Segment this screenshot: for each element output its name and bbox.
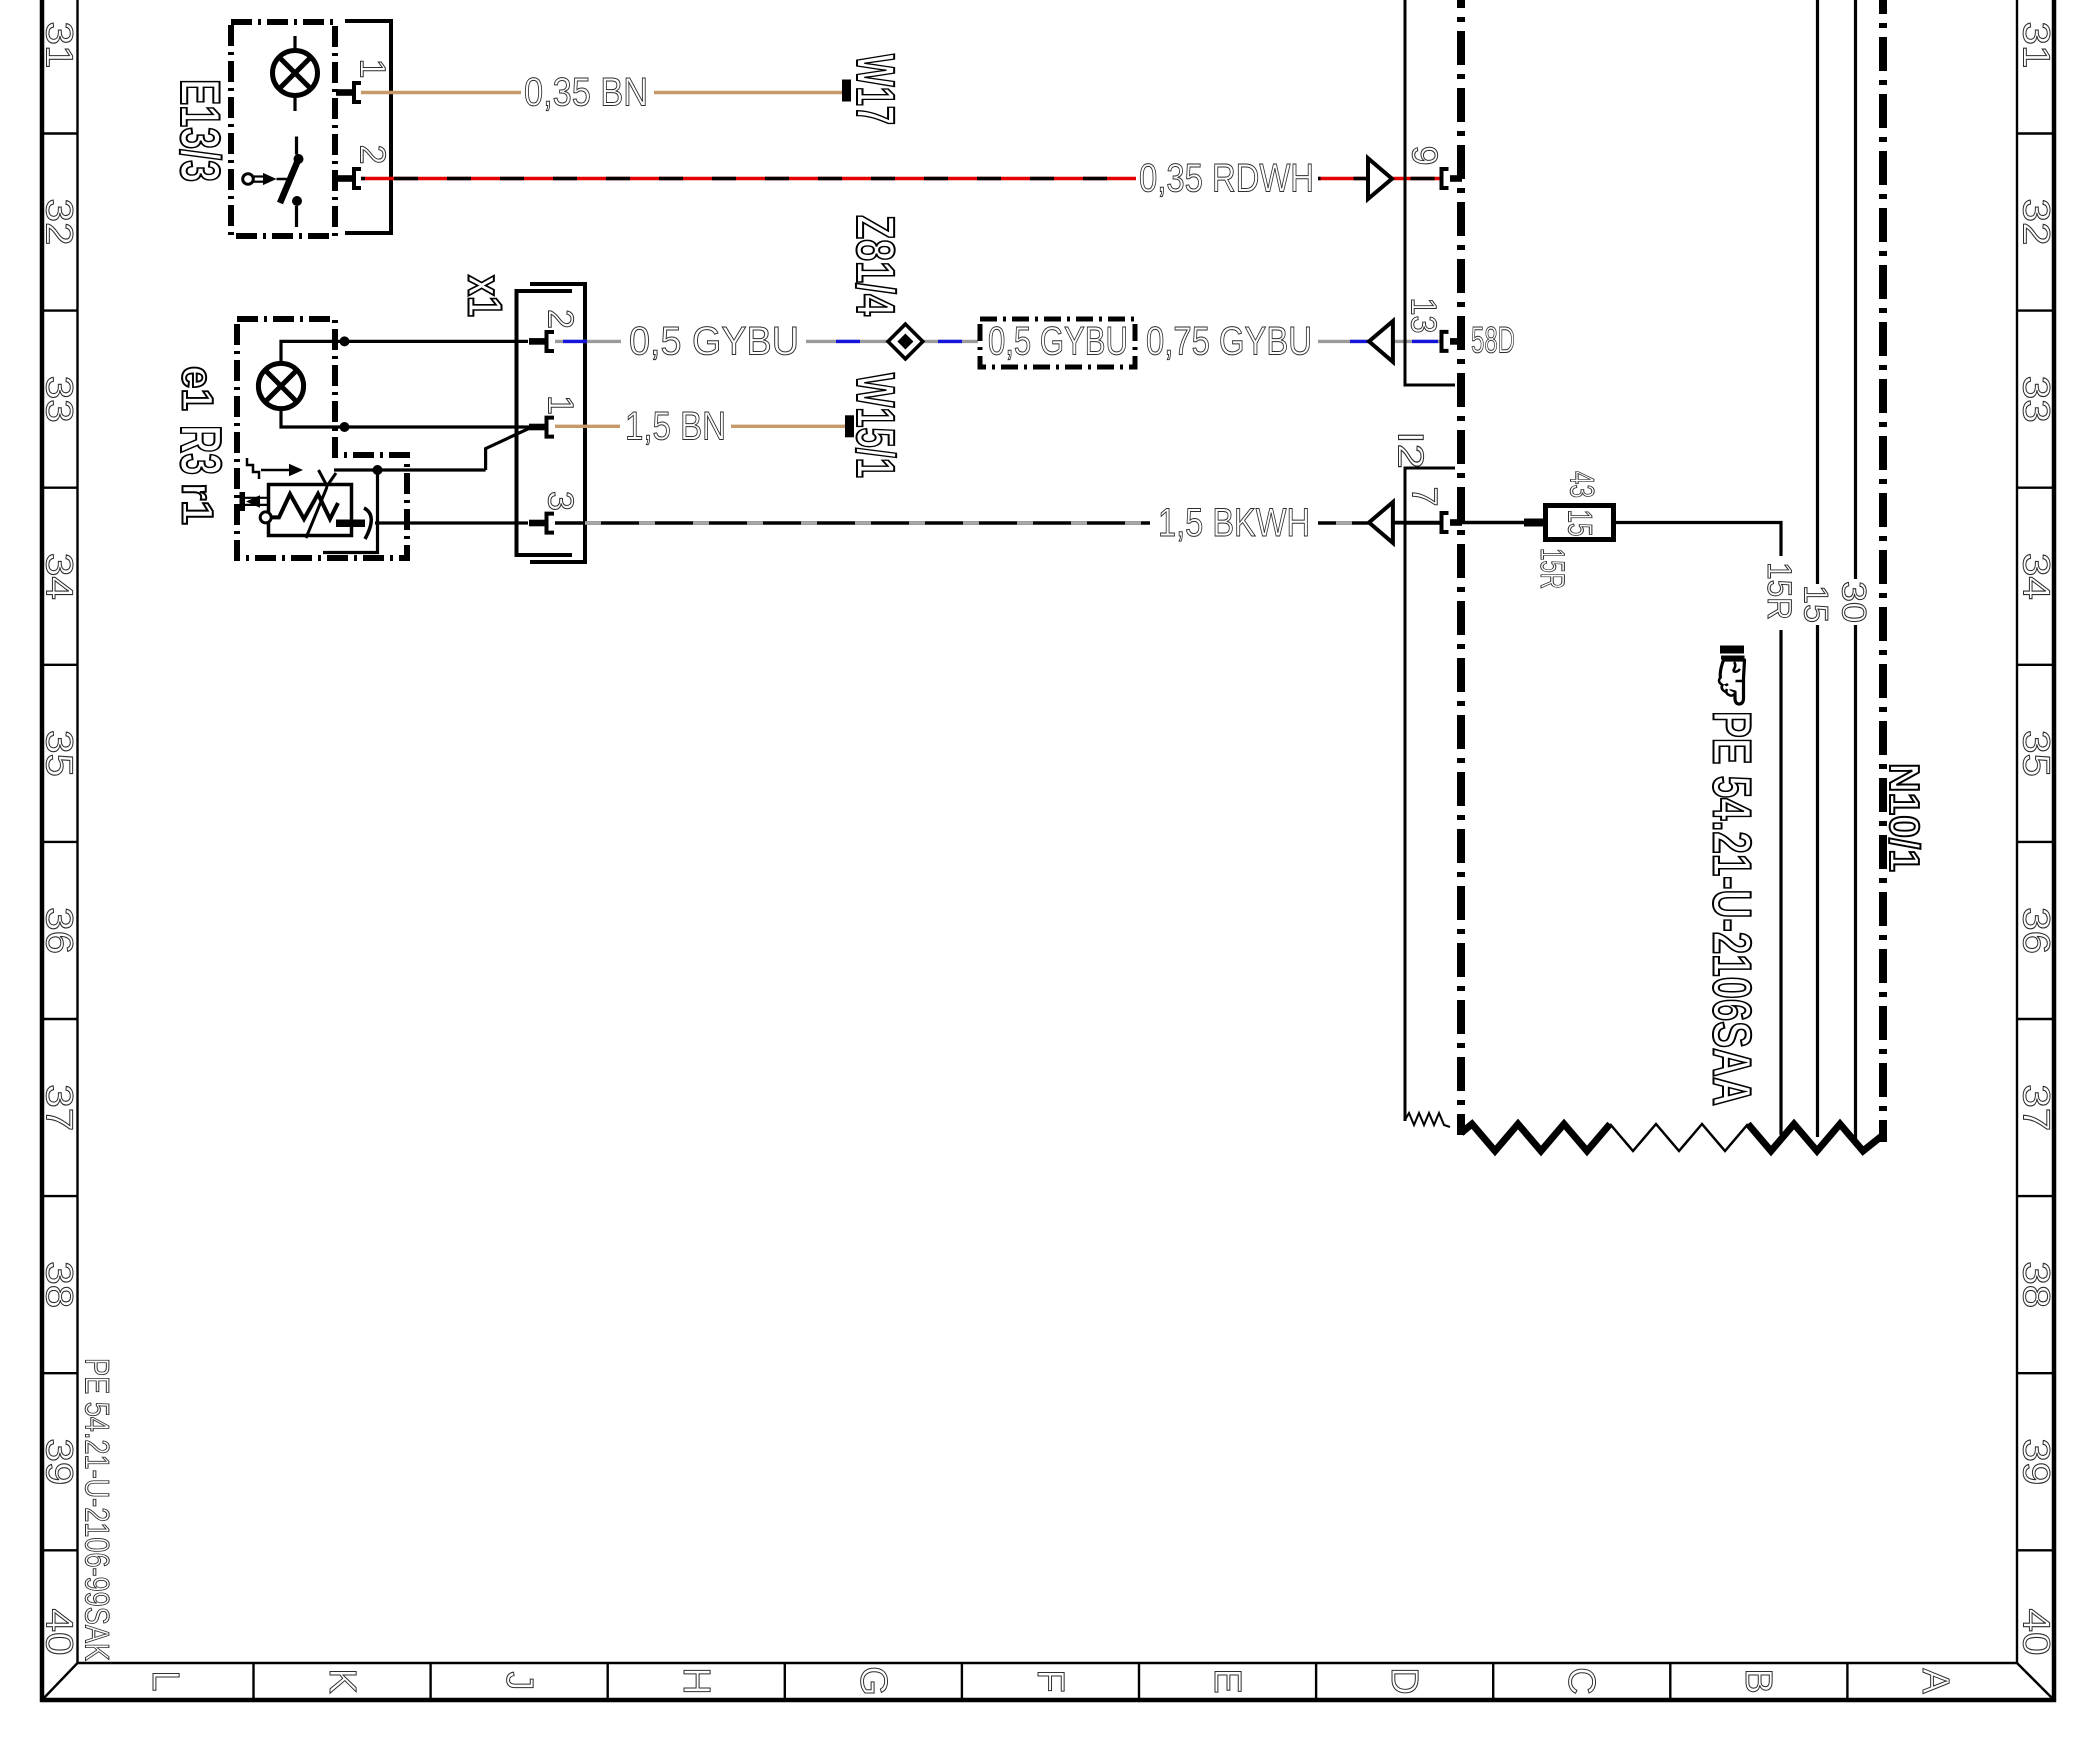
- svg-text:39: 39: [2015, 1438, 2057, 1485]
- wire r1 top tap: [334, 468, 486, 471]
- svg-text:15R: 15R: [1533, 548, 1571, 589]
- svg-text:J: J: [498, 1672, 540, 1691]
- svg-text:13: 13: [1404, 298, 1445, 334]
- svg-text:I2: I2: [1391, 431, 1432, 469]
- junction on housing edge: [340, 336, 350, 346]
- svg-text:15: 15: [1797, 585, 1835, 623]
- svg-text:G: G: [852, 1666, 894, 1696]
- svg-text:31: 31: [2015, 22, 2057, 69]
- pin 7: [1442, 513, 1449, 532]
- control unit N10/1 housing (dash-dot): [1457, 0, 1465, 1135]
- svg-text:1: 1: [541, 395, 582, 415]
- component e1/R3/r1 (dash-dot housing, stepped): [237, 319, 407, 558]
- X1 pin 1: [529, 424, 545, 431]
- thermal contact bar of r1: [240, 492, 246, 511]
- connector block top (pins 9/13): [1405, 0, 1455, 385]
- svg-text:A: A: [1914, 1668, 1956, 1694]
- svg-text:K: K: [321, 1668, 363, 1693]
- svg-text:0,35 BN: 0,35 BN: [524, 71, 648, 115]
- svg-text:2: 2: [541, 309, 582, 329]
- svg-text:r1: r1: [173, 483, 222, 525]
- svg-text:33: 33: [38, 376, 80, 423]
- svg-text:36: 36: [2015, 907, 2057, 954]
- svg-text:35: 35: [38, 730, 80, 777]
- svg-text:x1: x1: [458, 275, 511, 317]
- svg-text:0,5 GYBU: 0,5 GYBU: [629, 319, 799, 363]
- fuse 15 (terminal 43 / 15R): [1524, 519, 1545, 527]
- wire 0,35 RDWH (red with black stripes): [361, 177, 1441, 180]
- wire lamp to X1 pin 1: [281, 409, 532, 427]
- svg-text:43: 43: [1563, 471, 1601, 498]
- svg-text:7: 7: [1405, 486, 1446, 506]
- svg-text:Z81/4: Z81/4: [845, 215, 905, 316]
- svg-text:N10/1: N10/1: [1881, 763, 1928, 872]
- svg-text:D: D: [1383, 1667, 1425, 1694]
- svg-text:32: 32: [38, 199, 80, 246]
- svg-text:37: 37: [38, 1084, 80, 1131]
- svg-text:0,75 GYBU: 0,75 GYBU: [1146, 319, 1312, 363]
- tear line of N10/1 (thick): [1461, 1124, 1610, 1151]
- svg-text:E: E: [1206, 1668, 1248, 1693]
- wire 1,5 BN: [555, 425, 620, 428]
- wire lamp to X1 pin 2: [281, 341, 528, 363]
- wire fuse to 15R rail: [1616, 523, 1781, 557]
- svg-text:L: L: [144, 1670, 186, 1691]
- E13/3 connector face box: [345, 21, 391, 233]
- wire r1 wiper to X1 pin 3: [375, 521, 528, 524]
- wire 0,5 GYBU (grey with blue stripes): [555, 340, 1441, 343]
- wire 1,5 BKWH (black with grey stripes): [555, 521, 1441, 524]
- svg-text:33: 33: [2015, 376, 2057, 423]
- svg-text:58D: 58D: [1471, 320, 1515, 361]
- splice Z81/4: [888, 324, 923, 359]
- wire 0,35 BN: [361, 91, 521, 94]
- svg-text:40: 40: [38, 1609, 80, 1656]
- svg-text:F: F: [1029, 1669, 1071, 1692]
- svg-text:35: 35: [2015, 730, 2057, 777]
- svg-text:W17: W17: [845, 54, 905, 125]
- connector block I2 (pin 7): [1405, 468, 1455, 1121]
- svg-text:31: 31: [38, 22, 80, 69]
- connector X1: [517, 291, 573, 555]
- X1 pin 3: [529, 520, 545, 527]
- svg-text:1,5 BKWH: 1,5 BKWH: [1158, 501, 1310, 545]
- svg-text:H: H: [675, 1667, 717, 1694]
- r1 wiper output: [336, 520, 365, 528]
- component E13/3 (switch unit, dash-dot housing): [231, 22, 335, 236]
- svg-text:PE 54.21-U-2106-99SAK: PE 54.21-U-2106-99SAK: [78, 1358, 116, 1661]
- svg-text:R3: R3: [168, 425, 233, 475]
- svg-text:0,5 GYBU: 0,5 GYBU: [988, 319, 1128, 363]
- svg-text:38: 38: [38, 1261, 80, 1308]
- pointing hand icon: [1719, 646, 1745, 705]
- svg-text:2: 2: [353, 144, 394, 164]
- arrow into pin 9: [1368, 158, 1392, 199]
- svg-text:39: 39: [38, 1438, 80, 1485]
- wire tap to X1 pin 1: [486, 427, 532, 470]
- arrow out of pin 13: [1369, 321, 1393, 362]
- svg-text:E13/3: E13/3: [169, 79, 232, 182]
- svg-text:30: 30: [1835, 581, 1873, 623]
- tear line of I2 block: [1405, 1113, 1450, 1127]
- pin 1 of E13/3: [336, 89, 353, 96]
- svg-text:B: B: [1737, 1668, 1779, 1693]
- junction on housing edge: [340, 422, 350, 432]
- wire pin 7 to fuse: [1462, 521, 1527, 524]
- svg-text:36: 36: [38, 907, 80, 954]
- svg-text:15R: 15R: [1760, 562, 1798, 620]
- svg-text:C: C: [1560, 1667, 1602, 1694]
- pin 2 of E13/3: [336, 175, 353, 182]
- svg-text:40: 40: [2015, 1609, 2057, 1656]
- pin 13: [1442, 332, 1449, 351]
- spliced-wire box 0,5 GYBU: [980, 319, 1135, 367]
- svg-text:15: 15: [1561, 510, 1599, 537]
- svg-text:1,5 BN: 1,5 BN: [625, 404, 726, 448]
- svg-text:e1: e1: [173, 366, 222, 411]
- ground point W15/1: [845, 415, 854, 437]
- svg-text:0,35 RDWH: 0,35 RDWH: [1139, 157, 1314, 201]
- svg-text:32: 32: [2015, 199, 2057, 246]
- svg-text:1: 1: [353, 58, 394, 78]
- ground point W17: [842, 80, 851, 102]
- svg-text:37: 37: [2015, 1084, 2057, 1131]
- svg-text:PE 54.21-U-2106SAA: PE 54.21-U-2106SAA: [1702, 711, 1762, 1106]
- 30 rail: [1854, 0, 1857, 579]
- svg-text:3: 3: [541, 491, 582, 511]
- X1 pin 2: [529, 338, 545, 345]
- arrow out of pin 7: [1369, 502, 1393, 543]
- switch contact symbol in E13/3: [243, 137, 304, 228]
- 15 rail: [1816, 0, 1819, 584]
- svg-text:34: 34: [38, 553, 80, 600]
- pin 9: [1442, 169, 1449, 188]
- resistor r1 (variable, with thermal actuator): [247, 458, 352, 538]
- svg-text:34: 34: [2015, 553, 2057, 600]
- 15R rail: [1779, 630, 1782, 1135]
- svg-text:W15/1: W15/1: [845, 373, 905, 478]
- lamp symbol in E13/3: [273, 51, 318, 96]
- svg-text:9: 9: [1405, 145, 1446, 165]
- lamp symbol e1: [258, 363, 303, 408]
- svg-text:38: 38: [2015, 1261, 2057, 1308]
